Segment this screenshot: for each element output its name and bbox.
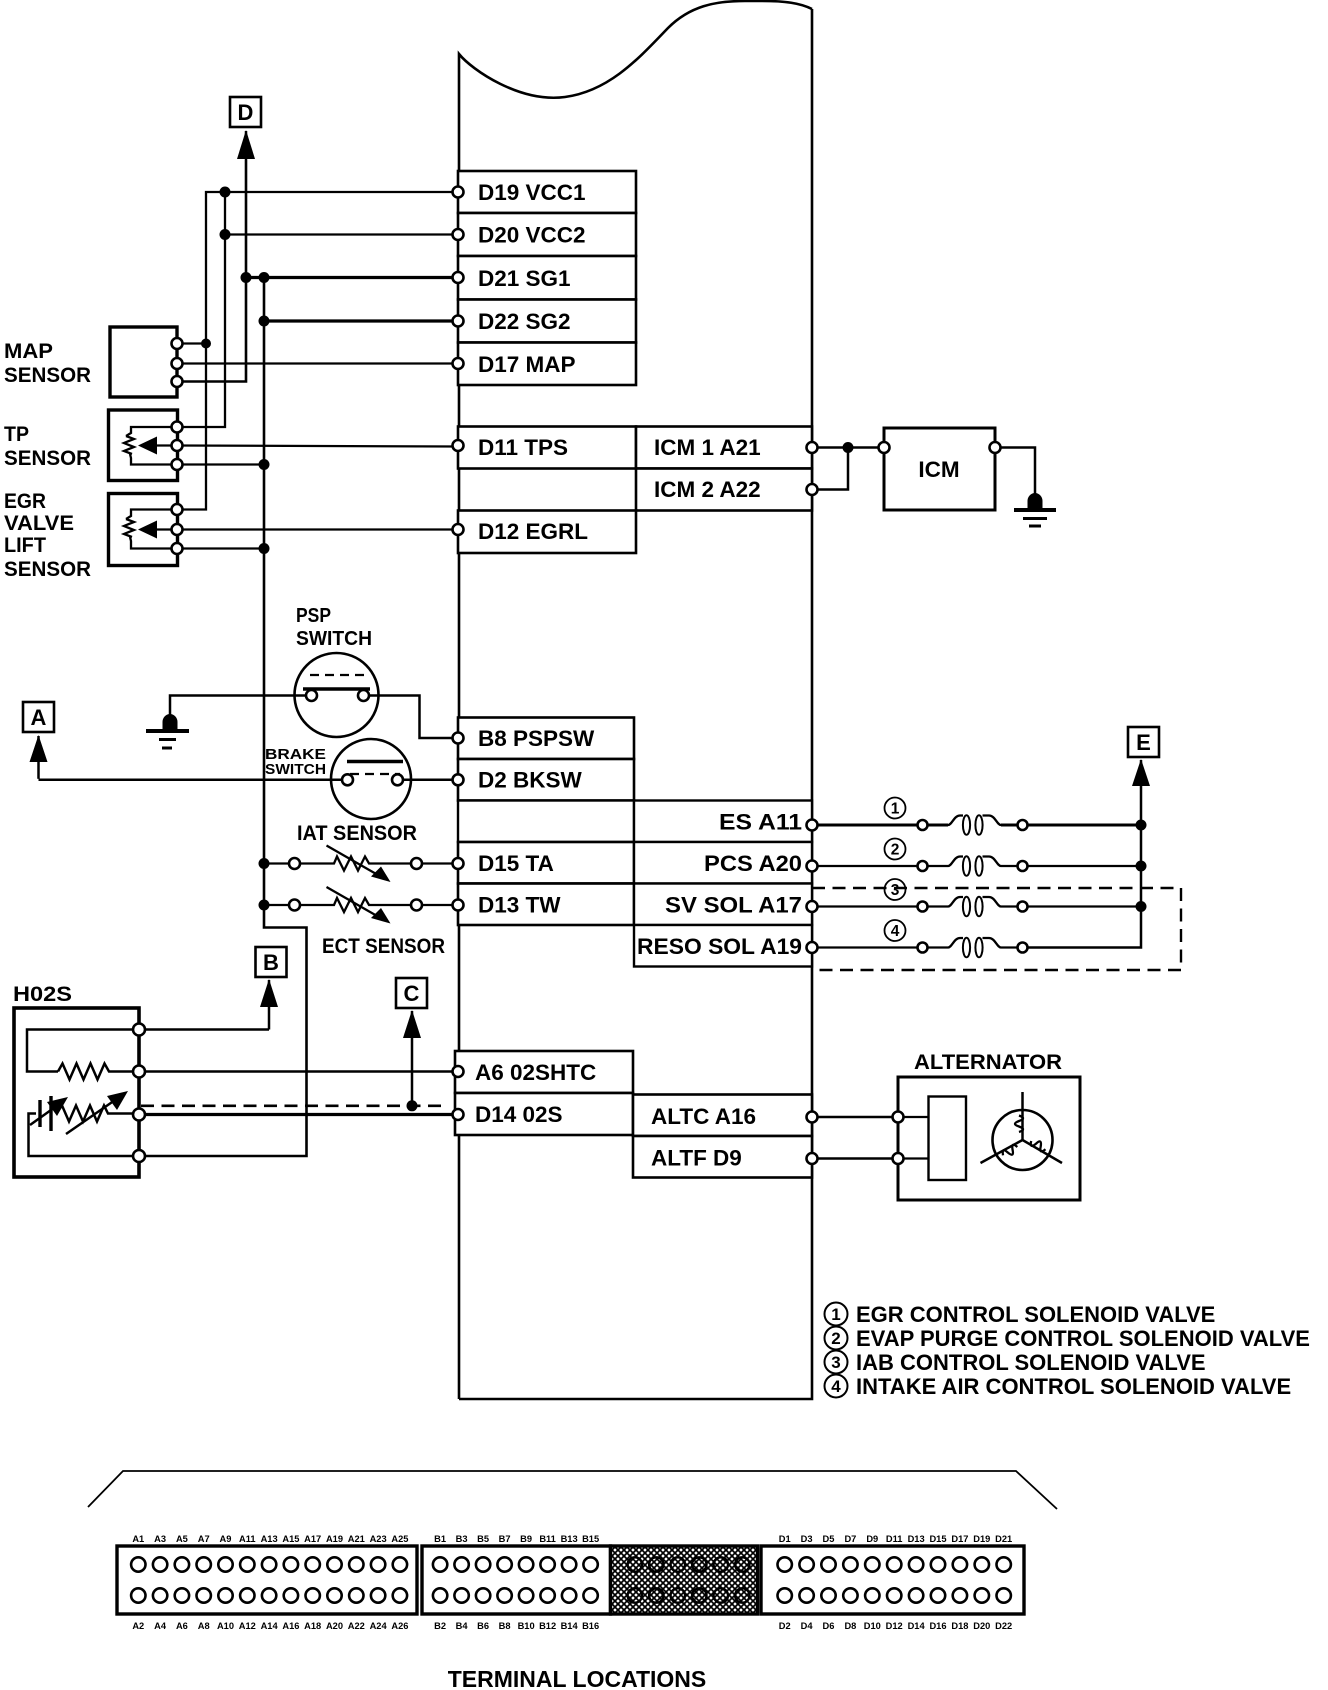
svg-text:D12 EGRL: D12 EGRL xyxy=(478,519,588,544)
brake switch symbol xyxy=(331,739,411,819)
svg-text:B1: B1 xyxy=(434,1534,446,1544)
junction MAP top pin tap xyxy=(201,339,211,349)
ECM pin label box A6 02SHTC xyxy=(455,1051,633,1093)
svg-text:D: D xyxy=(238,100,254,125)
junction SG bus at D21 xyxy=(259,272,270,283)
svg-text:B5: B5 xyxy=(477,1534,489,1544)
svg-text:D2 BKSW: D2 BKSW xyxy=(478,768,583,793)
svg-text:A5: A5 xyxy=(176,1534,188,1544)
wire TP wiper to D11 TPS xyxy=(177,446,458,447)
svg-text:ECT SENSOR: ECT SENSOR xyxy=(322,935,445,958)
junction SG bus at D22 xyxy=(259,316,270,327)
legend item 3: IAB CONTROL SOLENOID VALVE xyxy=(825,1350,1206,1375)
ECM connector pin circles (right edge) xyxy=(807,442,818,1164)
PSP switch symbol xyxy=(295,653,379,737)
wire ICM 1 A21 to ICM xyxy=(812,446,884,449)
H02S label xyxy=(13,983,72,1006)
ECT sensor (thermistor) to D13 TW xyxy=(259,887,459,958)
svg-text:D20: D20 xyxy=(973,1621,990,1631)
svg-text:D21 SG1: D21 SG1 xyxy=(478,266,571,291)
H02S heated oxygen sensor box xyxy=(14,1008,139,1177)
svg-text:A16: A16 xyxy=(282,1621,299,1631)
dashed optional-equipment box xyxy=(812,888,1181,970)
ECM pin label box D21 SG1 xyxy=(458,256,636,300)
sensor ground bus vertical (net SG) xyxy=(141,278,307,1157)
svg-text:D21: D21 xyxy=(995,1534,1012,1544)
ECM pin label box D12 EGRL xyxy=(458,511,636,554)
svg-text:SENSOR: SENSOR xyxy=(4,364,91,387)
svg-text:B7: B7 xyxy=(499,1534,511,1544)
svg-text:A13: A13 xyxy=(261,1534,278,1544)
wire D21 SG1 (thick) xyxy=(246,276,458,279)
svg-text:A25: A25 xyxy=(391,1534,408,1544)
junction D21/D riser xyxy=(241,272,252,283)
svg-text:PSP: PSP xyxy=(296,604,331,627)
EGR sensor pins xyxy=(172,504,183,554)
connector reference A with up arrow xyxy=(23,702,54,732)
svg-text:B10: B10 xyxy=(518,1621,535,1631)
wire D20 VCC2 horizontal xyxy=(225,233,458,235)
wire H02S signal to D14 02S (thick) xyxy=(145,1113,458,1116)
svg-text:PCS A20: PCS A20 xyxy=(704,851,802,876)
EGR VALVE LIFT SENSOR label xyxy=(4,490,91,581)
junction on D19 wire xyxy=(220,187,231,198)
connector reference B with up arrow xyxy=(256,947,287,977)
MAP SENSOR label xyxy=(4,340,91,387)
EGR valve lift sensor box xyxy=(109,494,178,566)
ECM pin label box D15 TA xyxy=(458,842,634,884)
svg-text:B4: B4 xyxy=(456,1621,469,1631)
wire EGR bottom to SG bus xyxy=(177,547,264,549)
svg-text:SWITCH: SWITCH xyxy=(296,627,372,650)
svg-text:RESO SOL A19: RESO SOL A19 xyxy=(637,934,802,959)
arrow to B xyxy=(260,979,278,1030)
empty left cell of ES row xyxy=(458,801,634,843)
legend item 4: INTAKE AIR CONTROL SOLENOID VALVE xyxy=(825,1374,1292,1399)
wire branch MAP top pin xyxy=(177,342,206,344)
legend item 1: EGR CONTROL SOLENOID VALVE xyxy=(825,1302,1216,1327)
TERMINAL LOCATIONS caption xyxy=(448,1666,707,1690)
svg-text:D11 TPS: D11 TPS xyxy=(478,435,568,460)
svg-text:A9: A9 xyxy=(220,1534,232,1544)
svg-text:B8 PSPSW: B8 PSPSW xyxy=(478,726,595,751)
svg-text:D6: D6 xyxy=(823,1621,835,1631)
svg-text:BRAKE: BRAKE xyxy=(265,747,326,763)
connector housing trapezoid outline xyxy=(88,1471,1057,1509)
ECM pin label box D20 VCC2 xyxy=(458,213,636,256)
svg-text:A11: A11 xyxy=(239,1534,256,1544)
svg-text:D17: D17 xyxy=(951,1534,968,1544)
arrow to D xyxy=(237,130,255,160)
svg-text:B3: B3 xyxy=(456,1534,468,1544)
arrow to E xyxy=(1132,759,1150,825)
wire ICM to ground xyxy=(1000,448,1035,495)
ECM pin label box D22 SG2 xyxy=(458,300,636,343)
ECM/PCM control unit body outline xyxy=(459,1,812,1399)
MAP sensor pins xyxy=(172,338,183,387)
arrow to A xyxy=(30,735,48,779)
ECM pin label box D13 TW xyxy=(458,884,634,926)
wire brake switch to connector A xyxy=(39,779,343,782)
shaded unused connector block xyxy=(611,1546,758,1614)
junction EGR bottom xyxy=(259,543,270,554)
svg-text:D22 SG2: D22 SG2 xyxy=(478,309,571,334)
ground symbol at PSP switch xyxy=(146,714,189,748)
svg-text:IAB CONTROL SOLENOID VALVE: IAB CONTROL SOLENOID VALVE xyxy=(856,1350,1206,1375)
wire D20 VCC2 branch to TP top (net VCC2) xyxy=(177,192,225,427)
ECM pin label box D11 TPS xyxy=(458,427,636,469)
TP sensor pins xyxy=(172,422,183,471)
EVAP purge control solenoid valve circuit (2) PCS A20 xyxy=(817,839,1147,876)
svg-text:A1: A1 xyxy=(132,1534,144,1544)
svg-text:SENSOR: SENSOR xyxy=(4,558,91,581)
junction TP bottom xyxy=(259,459,270,470)
svg-text:D1: D1 xyxy=(779,1534,791,1544)
svg-text:D8: D8 xyxy=(844,1621,856,1631)
svg-text:ALTF D9: ALTF D9 xyxy=(651,1146,742,1171)
svg-text:D4: D4 xyxy=(801,1621,814,1631)
ECM pin label box D17 MAP xyxy=(458,343,636,386)
svg-text:A23: A23 xyxy=(370,1534,387,1544)
TP SENSOR label xyxy=(4,423,91,470)
svg-text:4: 4 xyxy=(891,923,900,940)
svg-text:A3: A3 xyxy=(154,1534,166,1544)
svg-text:2: 2 xyxy=(831,1329,840,1348)
shield wire (dashed) to connector C xyxy=(141,1100,448,1111)
svg-text:D3: D3 xyxy=(801,1534,813,1544)
svg-text:MAP: MAP xyxy=(4,340,53,363)
svg-text:D13 TW: D13 TW xyxy=(478,893,561,918)
svg-text:B15: B15 xyxy=(582,1534,599,1544)
svg-text:D17 MAP: D17 MAP xyxy=(478,352,576,377)
svg-text:D9: D9 xyxy=(866,1534,878,1544)
junction on D20 wire xyxy=(220,229,231,240)
svg-text:3: 3 xyxy=(891,882,900,899)
svg-text:SV SOL A17: SV SOL A17 xyxy=(665,892,802,917)
svg-text:TP: TP xyxy=(4,423,29,446)
ECM pin label box ICM 1 A21 xyxy=(636,427,812,469)
svg-text:ICM: ICM xyxy=(918,457,959,482)
svg-text:D12: D12 xyxy=(886,1621,903,1631)
ECM pin label box ALTC A16 xyxy=(633,1095,812,1137)
svg-text:ALTERNATOR: ALTERNATOR xyxy=(914,1051,1062,1074)
ICM igniter box xyxy=(884,428,995,510)
wire PSP switch to ground xyxy=(170,696,306,717)
svg-text:A17: A17 xyxy=(304,1534,321,1544)
terminal block A (A1-A26) xyxy=(117,1534,417,1631)
svg-text:D19 VCC1: D19 VCC1 xyxy=(478,180,586,205)
wire connector D riser to MAP bottom xyxy=(177,160,246,382)
ECM pin label box ES A11 xyxy=(634,801,812,843)
svg-text:2: 2 xyxy=(891,842,900,859)
svg-text:B: B xyxy=(263,950,279,975)
svg-text:A14: A14 xyxy=(261,1621,279,1631)
PSP SWITCH label xyxy=(296,604,372,650)
svg-text:D16: D16 xyxy=(929,1621,946,1631)
ECM pin label box D19 VCC1 xyxy=(458,171,636,213)
svg-text:D15: D15 xyxy=(929,1534,946,1544)
svg-text:A24: A24 xyxy=(370,1621,388,1631)
svg-text:A18: A18 xyxy=(304,1621,321,1631)
svg-text:D22: D22 xyxy=(995,1621,1012,1631)
ALTERNATOR label xyxy=(914,1051,1062,1074)
svg-text:A15: A15 xyxy=(282,1534,299,1544)
ECM pin label box ICM 2 A22 xyxy=(636,469,812,511)
svg-text:A6: A6 xyxy=(176,1621,188,1631)
junction ICM wires xyxy=(843,442,854,453)
wire D19 VCC1 to MAP/EGR (net VCC1) xyxy=(177,192,458,510)
svg-text:A6 02SHTC: A6 02SHTC xyxy=(475,1060,596,1085)
IAB control solenoid valve circuit (3) SV SOL A17 xyxy=(817,879,1147,916)
svg-text:3: 3 xyxy=(831,1353,840,1372)
svg-text:D19: D19 xyxy=(973,1534,990,1544)
wire H02S heater to connector B xyxy=(145,1028,269,1031)
svg-text:B2: B2 xyxy=(434,1621,446,1631)
svg-text:SWITCH: SWITCH xyxy=(265,762,326,778)
svg-text:ICM 1 A21: ICM 1 A21 xyxy=(654,435,761,460)
wire TP bottom to SG bus xyxy=(177,463,264,465)
ECM connector pin circles (left edge) xyxy=(453,187,464,1121)
alternator pins xyxy=(893,1112,904,1165)
wire solenoid bus riser to connector E xyxy=(1140,825,1143,907)
terminal block B (B1-B16) xyxy=(422,1534,611,1631)
alternator box xyxy=(898,1077,1080,1200)
ECM pin label box D14 02S xyxy=(455,1093,633,1135)
svg-text:A4: A4 xyxy=(154,1621,167,1631)
wire D17 MAP signal xyxy=(177,362,458,364)
svg-text:A12: A12 xyxy=(239,1621,256,1631)
svg-text:TERMINAL LOCATIONS: TERMINAL LOCATIONS xyxy=(448,1666,707,1690)
connector reference D with up arrow xyxy=(230,97,261,127)
svg-text:4: 4 xyxy=(831,1377,841,1396)
svg-text:A: A xyxy=(31,705,47,730)
intake air control solenoid valve circuit (4) RESO SOL A19 xyxy=(817,907,1141,958)
BRAKE SWITCH label xyxy=(265,747,326,778)
svg-text:E: E xyxy=(1136,730,1151,755)
svg-text:D2: D2 xyxy=(779,1621,791,1631)
ICM pins xyxy=(879,442,1001,453)
TP sensor box xyxy=(109,410,178,481)
svg-text:H02S: H02S xyxy=(13,983,72,1006)
wire D22 SG2 (thick) xyxy=(264,319,458,322)
svg-text:ES A11: ES A11 xyxy=(719,809,802,834)
ECM pin label box B8 PSPSW xyxy=(458,718,634,760)
ECM pin label box PCS A20 xyxy=(634,842,812,884)
wire PSP switch to B8 PSPSW xyxy=(369,696,458,739)
svg-text:D18: D18 xyxy=(951,1621,968,1631)
svg-text:A19: A19 xyxy=(326,1534,343,1544)
svg-text:EGR: EGR xyxy=(4,490,46,513)
svg-text:VALVE: VALVE xyxy=(4,512,74,535)
wire brake switch to D2 BKSW xyxy=(403,779,458,782)
svg-text:D14: D14 xyxy=(908,1621,926,1631)
svg-text:B12: B12 xyxy=(539,1621,556,1631)
svg-text:D20 VCC2: D20 VCC2 xyxy=(478,223,586,248)
ECM pin label box RESO SOL A19 xyxy=(634,925,812,967)
svg-text:INTAKE AIR CONTROL SOLENOID VA: INTAKE AIR CONTROL SOLENOID VALVE xyxy=(856,1374,1291,1399)
svg-text:A21: A21 xyxy=(348,1534,365,1544)
arrow to C xyxy=(403,1010,421,1106)
svg-text:B6: B6 xyxy=(477,1621,489,1631)
svg-text:D7: D7 xyxy=(844,1534,856,1544)
svg-text:A2: A2 xyxy=(132,1621,144,1631)
ECM pin label box ALTF D9 xyxy=(633,1136,812,1178)
IAT sensor (thermistor) to D15 TA xyxy=(259,822,459,882)
ground symbol at ICM xyxy=(1014,493,1056,526)
ECM pin label box SV SOL A17 xyxy=(634,884,812,926)
wire EGR wiper to D12 EGRL xyxy=(177,528,458,530)
svg-text:D15 TA: D15 TA xyxy=(478,851,554,876)
svg-text:B11: B11 xyxy=(539,1534,556,1544)
svg-text:B8: B8 xyxy=(499,1621,511,1631)
svg-text:B16: B16 xyxy=(582,1621,599,1631)
svg-text:B13: B13 xyxy=(561,1534,578,1544)
wire H02S heater control to A6 02SHTC xyxy=(145,1070,458,1073)
svg-text:A7: A7 xyxy=(198,1534,210,1544)
svg-text:ALTC A16: ALTC A16 xyxy=(651,1104,756,1129)
svg-text:1: 1 xyxy=(831,1305,840,1324)
wire ALTC A16 to alternator xyxy=(812,1116,898,1119)
svg-text:1: 1 xyxy=(891,801,900,818)
svg-text:LIFT: LIFT xyxy=(4,534,46,557)
svg-text:B14: B14 xyxy=(561,1621,579,1631)
svg-text:ICM 2 A22: ICM 2 A22 xyxy=(654,477,761,502)
svg-text:A20: A20 xyxy=(326,1621,343,1631)
wire ALTF D9 to alternator xyxy=(812,1157,898,1160)
svg-text:A22: A22 xyxy=(348,1621,365,1631)
svg-text:EGR CONTROL SOLENOID VALVE: EGR CONTROL SOLENOID VALVE xyxy=(856,1302,1215,1327)
svg-text:IAT SENSOR: IAT SENSOR xyxy=(297,822,417,845)
svg-text:D11: D11 xyxy=(886,1534,903,1544)
svg-text:D10: D10 xyxy=(864,1621,881,1631)
svg-text:A10: A10 xyxy=(217,1621,234,1631)
wire ICM 2 A22 to ICM xyxy=(812,448,848,490)
svg-text:D13: D13 xyxy=(908,1534,925,1544)
connector reference E with up arrow xyxy=(1128,727,1159,757)
svg-text:SENSOR: SENSOR xyxy=(4,447,91,470)
svg-text:A8: A8 xyxy=(198,1621,210,1631)
svg-text:B9: B9 xyxy=(520,1534,532,1544)
legend item 2: EVAP PURGE CONTROL SOLENOID VALVE xyxy=(825,1326,1310,1351)
svg-text:C: C xyxy=(404,981,420,1006)
ECM pin label box D2 BKSW xyxy=(458,759,634,801)
svg-text:D14 02S: D14 02S xyxy=(475,1102,563,1127)
terminal block D (D1-D22) xyxy=(761,1534,1024,1631)
EGR control solenoid valve circuit (1) ES A11 xyxy=(817,798,1147,835)
svg-text:A26: A26 xyxy=(391,1621,408,1631)
H02S pins xyxy=(133,1024,145,1163)
connector reference C with up arrow xyxy=(396,978,427,1008)
svg-text:D5: D5 xyxy=(823,1534,835,1544)
svg-text:EVAP PURGE CONTROL SOLENOID VA: EVAP PURGE CONTROL SOLENOID VALVE xyxy=(856,1326,1310,1351)
MAP sensor box xyxy=(110,327,177,397)
